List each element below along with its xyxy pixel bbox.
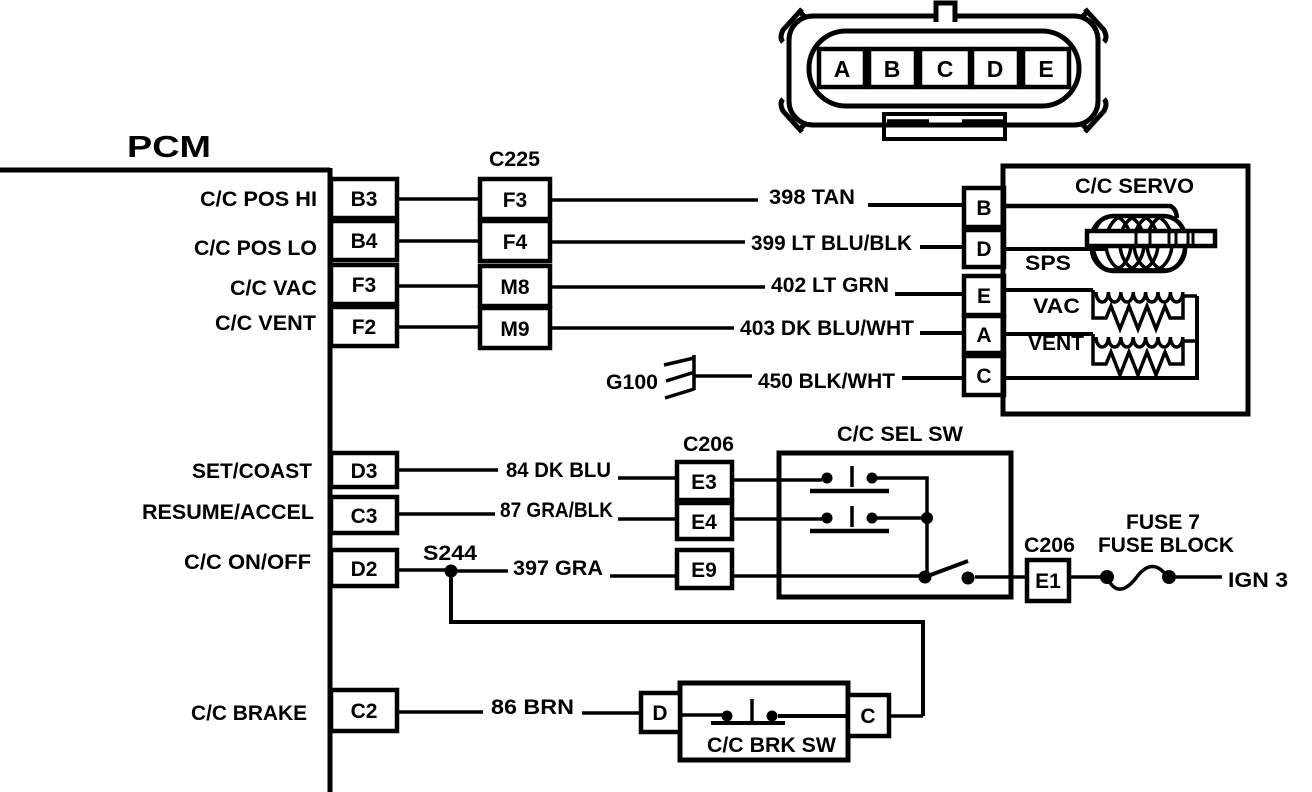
net label C/C VAC <box>230 277 317 300</box>
wire S244 to brake switch <box>451 571 923 716</box>
svg-text:F3: F3 <box>352 274 377 297</box>
svg-text:D: D <box>987 56 1004 82</box>
switch RESUME contact <box>810 506 889 531</box>
wire 402 LT GRN left segment <box>550 285 765 289</box>
pin D (brake switch) <box>641 693 680 732</box>
connector face body <box>789 16 1098 125</box>
value label 403 DK BLU/WHT <box>740 317 914 340</box>
C/C SERVO label <box>1075 175 1194 198</box>
svg-text:E: E <box>1038 56 1053 82</box>
connector cavity B <box>869 49 916 87</box>
svg-text:402 LT GRN: 402 LT GRN <box>771 274 889 297</box>
pin C (servo) <box>964 356 1004 395</box>
connector C206 label <box>683 433 734 456</box>
net label IGN 3 <box>1228 569 1288 592</box>
wire SET to common <box>872 478 927 577</box>
connector mount tab <box>884 114 1005 139</box>
svg-text:C: C <box>976 365 991 388</box>
wire 399 LT BLU/BLK left segment <box>550 240 745 244</box>
switch ON/OFF <box>919 561 975 585</box>
svg-text:399 LT BLU/BLK: 399 LT BLU/BLK <box>751 232 912 255</box>
svg-text:G100: G100 <box>606 371 658 394</box>
svg-text:403 DK BLU/WHT: 403 DK BLU/WHT <box>740 317 914 340</box>
pin D2 (PCM) <box>331 550 397 586</box>
wire F2 to M9 <box>397 325 480 329</box>
wire D2 to S244 <box>397 568 451 572</box>
svg-text:D: D <box>976 238 991 261</box>
wire 397 GRA left segment <box>451 569 508 573</box>
wire brake switch C to riser <box>889 714 923 718</box>
PCM boundary line <box>0 168 330 792</box>
switch SET contact <box>810 466 889 491</box>
wire B3 to F3 <box>397 197 480 201</box>
pin E9 (C206) <box>677 550 732 588</box>
pin C3 (PCM) <box>331 497 397 533</box>
value label 397 GRA <box>513 557 603 580</box>
wire 86 BRN to pin D <box>582 711 641 715</box>
pin B4 (PCM) <box>331 221 397 260</box>
wire servo pin E internal <box>1004 288 1093 292</box>
svg-text:E: E <box>977 285 991 308</box>
pin F4 (C225) <box>480 221 550 261</box>
svg-text:398 TAN: 398 TAN <box>769 186 855 209</box>
svg-text:B: B <box>884 56 901 82</box>
SPS position sensor coil <box>1093 216 1185 270</box>
wire 397 GRA right segment <box>610 574 677 578</box>
svg-text:450 BLK/WHT: 450 BLK/WHT <box>758 370 895 393</box>
node S244 label <box>423 542 477 565</box>
svg-text:C206: C206 <box>1024 534 1075 557</box>
pin A (servo) <box>964 316 1004 353</box>
svg-text:C/C BRK SW: C/C BRK SW <box>707 734 836 757</box>
value label 86 BRN <box>491 696 574 719</box>
net label C/C BRAKE <box>191 702 307 725</box>
value label 84 DK BLU <box>506 459 611 482</box>
pin M9 (C225) <box>480 308 550 348</box>
pin B3 (PCM) <box>331 179 397 218</box>
svg-text:C3: C3 <box>351 505 378 528</box>
pin B (servo) <box>964 188 1004 227</box>
wire E1 to fuse <box>1069 575 1102 579</box>
FUSE 7 label <box>1126 511 1200 534</box>
pin M8 (C225) <box>480 266 550 306</box>
connector clip bottom-left <box>781 99 820 132</box>
svg-text:C: C <box>860 705 875 728</box>
net label C/C ON/OFF <box>184 551 311 574</box>
wire fuse to IGN 3 <box>1176 575 1222 579</box>
wire 87 GRA/BLK right segment <box>618 517 677 521</box>
net label C/C POS LO <box>194 237 317 260</box>
junction S244 <box>445 565 458 578</box>
connector clip bottom-right <box>1067 99 1106 132</box>
wire 403 DK BLU/WHT right segment <box>920 331 964 335</box>
VAC resistor <box>1093 290 1197 329</box>
FUSE BLOCK label <box>1098 534 1234 557</box>
svg-text:SET/COAST: SET/COAST <box>192 460 312 483</box>
wire E3 to set contact <box>732 478 822 482</box>
connector cavity D <box>972 49 1019 87</box>
value label 398 TAN <box>769 186 855 209</box>
SPS coil envelope <box>1092 216 1185 271</box>
wire 450 BLK/WHT right segment <box>902 376 964 380</box>
wire E4 to resume contact <box>732 517 822 521</box>
svg-text:C206: C206 <box>683 433 734 456</box>
connector cavity C <box>920 49 970 87</box>
svg-text:C/C ON/OFF: C/C ON/OFF <box>184 551 311 574</box>
wire 84 DK BLU left segment <box>397 468 498 472</box>
connector C206 label (fuse side) <box>1024 534 1075 557</box>
pin E1 (C206) <box>1027 560 1069 601</box>
ground G100 label <box>606 371 658 394</box>
wire B4 to F4 <box>397 239 480 243</box>
connector cavity E <box>1023 49 1069 87</box>
switch C/C BRK SW contact <box>680 699 848 723</box>
svg-text:IGN 3: IGN 3 <box>1228 569 1288 592</box>
wire C2 to 86 BRN <box>397 710 483 714</box>
wire 402 LT GRN right segment <box>895 292 964 296</box>
wire servo pin C internal return bus <box>1004 296 1197 378</box>
svg-text:E1: E1 <box>1035 570 1061 593</box>
svg-text:C/C SERVO: C/C SERVO <box>1075 175 1194 198</box>
svg-text:F4: F4 <box>503 231 528 254</box>
svg-text:C2: C2 <box>351 700 378 723</box>
C/C SEL SW box <box>779 453 1011 597</box>
PCM module label <box>127 129 211 164</box>
svg-text:F2: F2 <box>352 316 377 339</box>
svg-text:C/C BRAKE: C/C BRAKE <box>191 702 307 725</box>
pin F3 (PCM) <box>331 265 397 304</box>
pin D3 (PCM) <box>331 453 397 487</box>
fuse F7 <box>1100 566 1176 589</box>
VAC solenoid winding <box>1096 292 1183 302</box>
svg-text:E9: E9 <box>691 559 717 582</box>
net label RESUME/ACCEL <box>142 501 314 524</box>
wire 87 GRA/BLK left segment <box>397 512 495 516</box>
svg-text:C: C <box>937 56 954 82</box>
wire servo pin A internal <box>1004 332 1093 336</box>
svg-text:M9: M9 <box>500 318 529 341</box>
svg-text:FUSE BLOCK: FUSE BLOCK <box>1098 534 1234 557</box>
VAC label <box>1033 295 1080 318</box>
VENT resistor <box>1093 334 1197 375</box>
C/C SEL SW label <box>837 423 963 446</box>
wire 398 TAN left segment <box>550 198 758 202</box>
value label 399 LT BLU/BLK <box>751 232 912 255</box>
svg-text:A: A <box>834 56 851 82</box>
pin E (servo) <box>964 276 1004 315</box>
svg-text:D2: D2 <box>351 558 378 581</box>
connector inner stadium <box>809 31 1079 106</box>
pin C (brake switch) <box>848 695 889 736</box>
svg-text:B: B <box>976 197 991 220</box>
wire F3 to M8 <box>397 284 480 288</box>
svg-text:C225: C225 <box>489 148 540 171</box>
pin F3 (C225) <box>480 179 550 219</box>
svg-text:C/C SEL SW: C/C SEL SW <box>837 423 963 446</box>
svg-text:A: A <box>976 324 991 347</box>
svg-text:B3: B3 <box>351 188 378 211</box>
net label C/C VENT <box>215 312 316 335</box>
wire E9 to on/off switch <box>732 574 920 578</box>
wire servo pin B internal <box>1004 206 1177 218</box>
C/C BRK SW box <box>680 683 848 760</box>
connector lock tab <box>936 3 955 22</box>
svg-text:M8: M8 <box>500 276 529 299</box>
svg-text:VAC: VAC <box>1033 295 1080 318</box>
svg-text:FUSE 7: FUSE 7 <box>1126 511 1200 534</box>
SPS label <box>1025 252 1071 275</box>
value label 450 BLK/WHT <box>758 370 895 393</box>
svg-text:C/C VAC: C/C VAC <box>230 277 317 300</box>
wire 398 TAN right segment <box>868 203 964 207</box>
pin E3 (C206) <box>677 462 732 500</box>
svg-text:87 GRA/BLK: 87 GRA/BLK <box>500 499 613 522</box>
net label SET/COAST <box>192 460 312 483</box>
pin F2 (PCM) <box>331 307 397 346</box>
svg-text:84 DK BLU: 84 DK BLU <box>506 459 611 482</box>
junction resume to common <box>872 512 933 524</box>
pin E4 (C206) <box>677 503 732 539</box>
connector C225 label <box>489 148 540 171</box>
wire 450 BLK/WHT left segment <box>694 374 752 378</box>
value label 402 LT GRN <box>771 274 889 297</box>
pin D (servo) <box>964 230 1004 267</box>
wire 403 DK BLU/WHT left segment <box>550 326 734 330</box>
svg-text:PCM: PCM <box>127 129 211 164</box>
VENT solenoid winding <box>1096 337 1183 347</box>
svg-text:E4: E4 <box>691 511 717 534</box>
svg-text:SPS: SPS <box>1025 252 1071 275</box>
svg-text:D: D <box>652 702 667 725</box>
svg-text:C/C VENT: C/C VENT <box>215 312 316 335</box>
svg-text:S244: S244 <box>423 542 477 565</box>
svg-text:C/C POS LO: C/C POS LO <box>194 237 317 260</box>
svg-text:B4: B4 <box>351 230 378 253</box>
net label C/C POS HI <box>200 188 317 211</box>
connector cavity A <box>819 49 865 87</box>
svg-text:D3: D3 <box>351 460 378 483</box>
svg-text:E3: E3 <box>691 471 717 494</box>
value label 87 GRA/BLK <box>500 499 613 522</box>
connector clip top-left <box>781 9 820 42</box>
connector clip top-right <box>1067 9 1106 42</box>
ground G100 symbol <box>664 355 695 398</box>
wire 84 DK BLU right segment <box>618 476 677 480</box>
VENT label <box>1028 332 1084 355</box>
svg-text:RESUME/ACCEL: RESUME/ACCEL <box>142 501 314 524</box>
svg-text:C/C POS HI: C/C POS HI <box>200 188 317 211</box>
pin C2 (PCM) <box>331 690 397 731</box>
C/C BRK SW label <box>707 734 836 757</box>
svg-text:397 GRA: 397 GRA <box>513 557 603 580</box>
svg-text:VENT: VENT <box>1028 332 1084 355</box>
C/C SERVO box <box>1003 166 1248 414</box>
wire 399 LT BLU/BLK right segment <box>920 245 964 249</box>
SPS armature bar <box>1087 231 1215 246</box>
wire servo pin D internal <box>1004 247 1105 251</box>
svg-text:86 BRN: 86 BRN <box>491 696 574 719</box>
wire on/off to E1 <box>975 575 1027 579</box>
svg-text:F3: F3 <box>503 189 528 212</box>
